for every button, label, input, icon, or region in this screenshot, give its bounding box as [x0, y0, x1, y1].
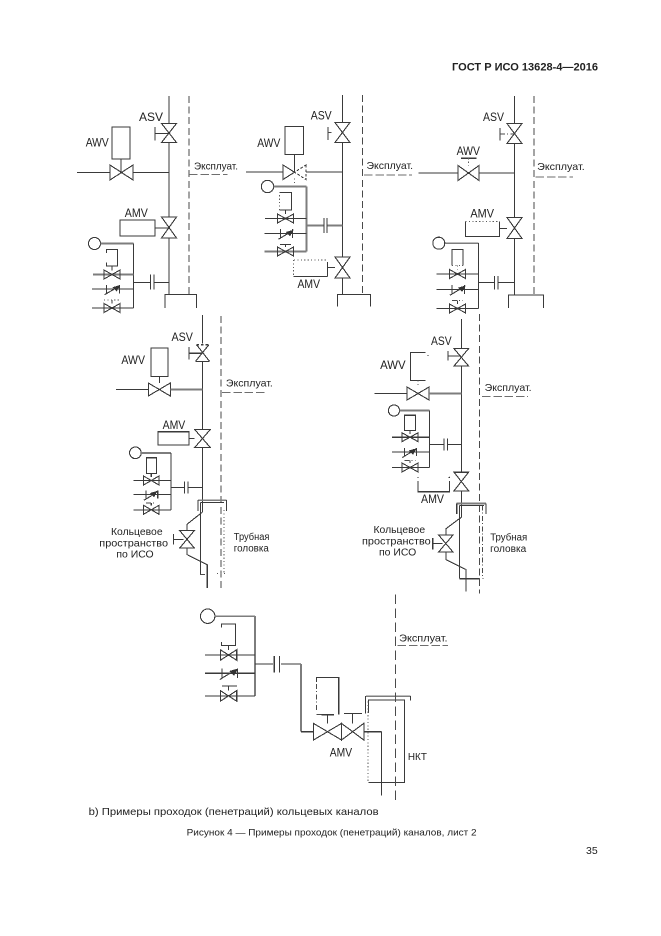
wire dashed horiz D5 [482, 396, 528, 398]
instrument circle D1 [89, 238, 101, 250]
svg-text:AWV: AWV [86, 136, 109, 150]
wire annulus to main D2 [307, 225, 324, 227]
wire annulus to main D5 [430, 444, 444, 446]
valve AMV D2 [335, 257, 350, 278]
actuator bracket AWV D5 [410, 353, 425, 381]
tubing NKT rectangle D6 [369, 700, 405, 782]
actuator tee ASV D1 [154, 127, 156, 141]
branch 2 wire D2 [265, 233, 307, 235]
branch 1 wire D3 [437, 273, 479, 275]
branch 3 valve D3 [450, 304, 466, 313]
branch 1 wire D4 [134, 480, 171, 482]
wire dashed flowline boundary D1 [188, 96, 190, 295]
wire circle to header D4 [141, 452, 171, 454]
branch 3 wire D6 [205, 695, 255, 697]
branch 2 regulator D3 [451, 285, 453, 294]
actuator bracket AMV D5 [418, 481, 449, 492]
svg-text:по ИСО: по ИСО [379, 548, 417, 559]
valve AMV D1 [162, 217, 177, 238]
svg-text:НКТ: НКТ [408, 752, 427, 763]
wire dashed flowline boundary D3 [533, 96, 535, 295]
wire annulus channel exit D4 [187, 548, 207, 588]
actuator AWV D1 [112, 127, 130, 159]
actuator tee ASV D4 [188, 347, 190, 359]
wire annulus to main D1 [134, 282, 151, 284]
wire dashed boundary D4 [220, 316, 222, 588]
svg-text:b) Примеры проходок (пенетраци: b) Примеры проходок (пенетраций) кольцев… [89, 806, 379, 818]
branch 3 wire D1 [92, 307, 134, 309]
svg-text:AMV: AMV [421, 492, 444, 506]
pilot box D2 [280, 193, 292, 211]
actuator AMV D3 [466, 222, 500, 237]
wire down to AMV D6 [300, 664, 302, 732]
wire dashed boundary D5 [479, 314, 481, 594]
actuator tick ASV D2 [327, 127, 329, 140]
wire dashed horiz D4 [222, 392, 267, 394]
wire main production line D3 [514, 96, 516, 124]
branch 1 wire D1 [93, 274, 134, 276]
svg-text:пространство: пространство [362, 537, 431, 548]
wire AWV pipe D3 [419, 172, 459, 174]
wire main production line D1 [168, 96, 170, 124]
instrument circle D4 [130, 447, 142, 459]
actuator tee annulus valve D4 [172, 534, 174, 545]
connector flange D2 [323, 218, 325, 233]
valve ASV D2 [335, 123, 350, 143]
connector flange D5 [443, 439, 445, 451]
wire annulus to main D4 [171, 487, 184, 489]
wire header vertical D5 [429, 411, 431, 468]
wire header vertical D4 [170, 453, 172, 510]
actuator tee ASV D5 [447, 351, 449, 361]
wire main production line D5 [460, 319, 462, 349]
connector flange D1 [150, 275, 152, 290]
svg-text:AWV: AWV [457, 144, 480, 158]
wire dashed horiz D3 [536, 176, 574, 178]
svg-text:Эксплуат.: Эксплуат. [485, 383, 532, 394]
pilot bracket D6 [222, 624, 236, 645]
svg-text:Эксплуат.: Эксплуат. [399, 634, 448, 645]
branch 1 valve D1 [104, 270, 120, 279]
branch 2 wire D6 [205, 672, 255, 674]
wire AWV pipe D4 [116, 389, 148, 391]
svg-text:ГОСТ Р ИСО 13628-4—2016: ГОСТ Р ИСО 13628-4—2016 [452, 62, 598, 74]
wire AMV to tubing D6 [364, 731, 382, 733]
svg-text:ASV: ASV [172, 330, 193, 344]
branch 1 valve D2 [278, 214, 294, 223]
annulus valve D5 [439, 535, 454, 552]
svg-text:AMV: AMV [470, 207, 494, 221]
branch 2 regulator D6 [221, 669, 223, 679]
wire header vertical D1 [133, 244, 135, 309]
svg-text:AMV: AMV [330, 746, 352, 760]
actuator tee AWV D3 [461, 157, 477, 159]
valve AWV D2 [283, 165, 295, 180]
actuator AWV D4 [151, 348, 168, 377]
svg-text:ASV: ASV [139, 110, 163, 124]
pilot bracket D1 [107, 250, 118, 267]
instrument circle D3 [433, 237, 445, 249]
wire header vertical D2 [306, 187, 308, 252]
svg-text:Эксплуат.: Эксплуат. [194, 162, 238, 173]
actuator box AMV D2 [293, 260, 295, 277]
pilot box D5 [405, 415, 416, 430]
svg-text:Кольцевое: Кольцевое [374, 525, 426, 536]
valve AMV D4 [195, 430, 211, 448]
connector flange D4 [184, 482, 186, 494]
svg-text:35: 35 [586, 845, 598, 857]
svg-text:по ИСО: по ИСО [116, 550, 154, 561]
wellhead D2 [338, 295, 371, 307]
branch 2 wire D1 [92, 288, 134, 290]
tubing head top D4 [198, 499, 227, 501]
svg-text:AWV: AWV [257, 136, 280, 150]
branch 2 wire D3 [437, 288, 479, 290]
wellhead D3 [509, 295, 544, 308]
svg-text:пространство: пространство [99, 539, 168, 550]
actuator bracket AMV D6 [316, 677, 338, 714]
wire circle to header D2 [274, 186, 307, 188]
pilot box D3 [452, 250, 463, 266]
tubing head body D5 [482, 506, 484, 579]
valve ASV D1 [162, 124, 177, 143]
svg-text:AWV: AWV [380, 358, 406, 372]
actuator tee ASV D3 [499, 128, 501, 141]
valve ASV D5 [454, 349, 469, 366]
branch 3 wire D4 [134, 509, 171, 511]
branch 1 wire D6 [205, 654, 255, 656]
wire circle to header D5 [400, 410, 430, 412]
wire dashed flowline boundary D2 [362, 95, 364, 295]
branch 3 wire D3 [437, 308, 479, 310]
wire annulus to main D3 [479, 282, 495, 284]
branch 2 regulator D2 [280, 229, 282, 238]
svg-text:Рисунок 4 — Примеры проходок (: Рисунок 4 — Примеры проходок (пенетраций… [187, 828, 477, 839]
valve AMV D3 [507, 218, 522, 239]
wire dashed horiz D2 [364, 174, 412, 176]
svg-text:головка: головка [234, 544, 269, 555]
svg-text:Эксплуат.: Эксплуат. [367, 161, 414, 172]
wire circle to header D1 [101, 243, 134, 245]
branch 3 wire D5 [392, 467, 430, 469]
branch 2 wire D4 [134, 494, 171, 496]
wire dashed boundary D6 [395, 595, 397, 800]
valve AWV D5 [407, 387, 429, 400]
svg-text:AMV: AMV [298, 277, 321, 291]
wire annulus channel D5 [446, 517, 462, 535]
instrument circle D6 [201, 609, 215, 623]
svg-text:Трубная: Трубная [234, 531, 270, 543]
branch 3 valve D1 [104, 304, 120, 313]
branch 3 wire D2 [265, 251, 307, 253]
svg-text:AMV: AMV [163, 418, 186, 432]
valve AWV D3 [458, 166, 479, 181]
valve AMV right D6 [342, 723, 364, 740]
branch 1 valve D3 [450, 270, 466, 279]
valve AMV left D6 [314, 723, 342, 740]
wire to capacitor D6 [255, 663, 273, 665]
wire circle to header D3 [445, 242, 479, 244]
actuator tee annulus valve D5 [432, 538, 434, 550]
valve ASV D3 [507, 124, 522, 144]
connector flange D6 [273, 656, 275, 673]
branch 1 valve D5 [402, 433, 418, 442]
annulus valve D4 [180, 531, 195, 548]
svg-text:ASV: ASV [483, 110, 504, 124]
tubing head dotted body D4 [200, 502, 202, 574]
wire dashed horiz D6 [398, 645, 449, 647]
branch 2 regulator D4 [145, 491, 147, 499]
svg-text:Эксплуат.: Эксплуат. [537, 162, 585, 173]
svg-text:Кольцевое: Кольцевое [111, 527, 163, 538]
wire circle to header D6 [215, 615, 255, 617]
wire dotted link D2 [294, 179, 296, 187]
branch 2 regulator D5 [404, 448, 406, 456]
wire header vertical D3 [478, 243, 480, 308]
svg-text:головка: головка [490, 544, 526, 555]
valve AWV D1 [110, 165, 133, 180]
wire annulus channel D4 [187, 512, 203, 531]
wire AWV pipe D2 [246, 171, 283, 173]
wire main production line D2 [342, 95, 344, 123]
svg-text:ASV: ASV [431, 334, 452, 348]
actuator AMV D4 [158, 432, 189, 445]
pilot box D4 [146, 458, 156, 474]
branch 2 regulator D1 [106, 285, 108, 294]
wire AWV pipe D1 [77, 172, 110, 174]
branch 3 valve D5 [402, 463, 418, 472]
wire tubing string D6 [381, 732, 383, 796]
wire AWV pipe D5 [375, 392, 408, 394]
svg-text:ASV: ASV [311, 109, 332, 123]
wire header vertical D6 [254, 616, 256, 696]
valve AWV D4 [148, 383, 170, 396]
branch 1 valve D6 [220, 650, 236, 661]
tubing head top D5 [456, 502, 486, 504]
svg-text:Трубная: Трубная [490, 532, 527, 544]
actuator AMV D1 [120, 220, 155, 236]
valve AMV D5 [454, 472, 469, 491]
branch 2 wire D5 [392, 451, 430, 453]
svg-text:Эксплуат.: Эксплуат. [226, 379, 273, 390]
instrument circle D2 [261, 180, 273, 192]
branch 3 valve D4 [144, 505, 160, 514]
branch 1 wire D5 [392, 436, 430, 438]
svg-text:AMV: AMV [125, 206, 148, 220]
actuator tee AMV right D6 [344, 713, 362, 715]
tubing hanger top D6 [366, 695, 410, 697]
branch 1 wire D2 [265, 218, 307, 220]
svg-text:AWV: AWV [121, 353, 145, 367]
branch 3 valve D6 [220, 691, 236, 702]
wire annulus channel exit D5 [446, 552, 466, 592]
branch 1 valve D4 [144, 476, 160, 485]
actuator AWV D2 [285, 127, 304, 155]
branch 3 valve D2 [278, 247, 294, 256]
wire dashed horiz D1 [189, 174, 228, 176]
connector flange D3 [494, 276, 496, 290]
valve ASV D4 [196, 345, 210, 362]
wellhead D1 [165, 295, 197, 309]
instrument circle D5 [388, 405, 399, 416]
wire main production line D4 [202, 315, 204, 344]
